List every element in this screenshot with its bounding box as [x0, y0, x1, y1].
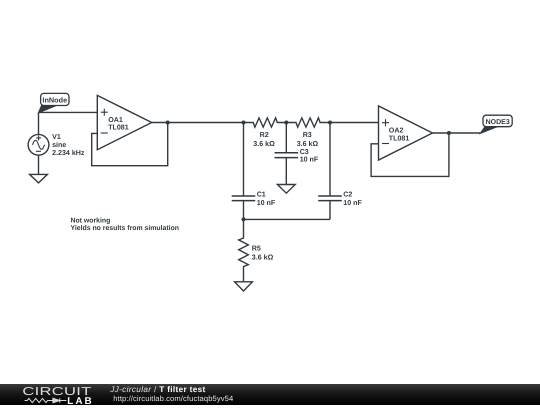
wire OA2 output to NODE3 [433, 132, 481, 134]
node junction at OA1 output feedback [166, 121, 170, 125]
logo squiggle resistor and diode [25, 398, 67, 403]
wire input horizontal from InNode corner to OA1 + input [39, 111, 98, 113]
capacitor C3 bottom lead wire [285, 158, 287, 185]
svg-text:V1: V1 [52, 133, 61, 141]
ground under R5 [235, 282, 253, 291]
svg-text:OA1: OA1 [108, 116, 123, 124]
svg-text:NODE3: NODE3 [486, 119, 510, 126]
op-amp OA2 triangle [379, 106, 433, 160]
capacitor C2 top lead wire [329, 123, 331, 197]
svg-text:http://circuitlab.com/cfuctaqb: http://circuitlab.com/cfuctaqb5yv54 [113, 394, 233, 403]
svg-text:InNode: InNode [42, 96, 67, 105]
svg-text:R3: R3 [303, 131, 312, 139]
capacitor C1 top lead wire [243, 123, 245, 197]
op-amp OA1 minus input marker [101, 132, 108, 134]
svg-text:JJ-circular / T filter test: JJ-circular / T filter test [109, 385, 205, 394]
op-amp OA2 minus input marker [382, 143, 389, 145]
node junction at OA2 output feedback [447, 131, 451, 135]
svg-text:R2: R2 [260, 131, 269, 139]
wire OA2 feedback: minus input to output [371, 133, 449, 176]
svg-text:Yields no results from simulat: Yields no results from simulation [71, 225, 179, 232]
ground under C3 [277, 185, 295, 194]
capacitor C1 [232, 196, 256, 201]
wire node C to OA2 + input [330, 122, 379, 124]
node junction at R3 right [328, 121, 332, 125]
op-amp OA1 plus input marker [101, 109, 108, 116]
resistor R3 [286, 118, 330, 127]
node junction at R2 left [242, 121, 246, 125]
node junction between R2 and R3 [284, 121, 288, 125]
svg-text:OA2: OA2 [389, 127, 404, 135]
footer bar [0, 384, 540, 407]
svg-text:LAB: LAB [67, 396, 94, 405]
wire OA1 output to node A [152, 122, 244, 124]
svg-text:10 nF: 10 nF [343, 199, 362, 207]
svg-text:3.6 kΩ: 3.6 kΩ [297, 140, 319, 148]
svg-text:C2: C2 [343, 191, 352, 199]
wire bottom rail C1 to C2 [244, 218, 331, 220]
wire V1 bottom to ground [38, 155, 40, 174]
resistor R5 [239, 219, 249, 281]
capacitor C1 bottom lead wire [243, 201, 245, 220]
svg-text:sine: sine [52, 141, 66, 149]
svg-text:10 nF: 10 nF [257, 199, 276, 207]
ground under V1 [30, 174, 48, 183]
node flag NODE3 [480, 115, 512, 133]
svg-text:2.234 kHz: 2.234 kHz [52, 149, 85, 157]
svg-text:TL081: TL081 [389, 135, 410, 143]
svg-text:C1: C1 [257, 191, 266, 199]
wire OA1 feedback: minus input to output [92, 123, 168, 166]
node flag InNode [38, 93, 69, 112]
svg-text:R5: R5 [252, 245, 261, 253]
wire from InNode corner down to V1 top [38, 112, 40, 134]
resistor R2 [244, 118, 287, 127]
node junction at bottom rail R5 [242, 217, 246, 221]
capacitor C2 [318, 196, 342, 201]
op-amp OA1 triangle [97, 95, 151, 149]
capacitor C2 bottom lead wire [329, 201, 331, 220]
capacitor C3 [275, 153, 299, 158]
svg-text:TL081: TL081 [108, 124, 129, 132]
svg-text:Not working: Not working [71, 218, 111, 225]
capacitor C3 top lead wire [285, 123, 287, 153]
logo CIRCUIT text [22, 386, 91, 398]
svg-text:10 nF: 10 nF [300, 156, 319, 164]
op-amp OA2 plus input marker [382, 119, 389, 126]
voltage source V1 (sine 2.234 kHz) [28, 134, 49, 155]
svg-text:3.6 kΩ: 3.6 kΩ [252, 253, 274, 261]
svg-text:3.6 kΩ: 3.6 kΩ [253, 140, 275, 148]
